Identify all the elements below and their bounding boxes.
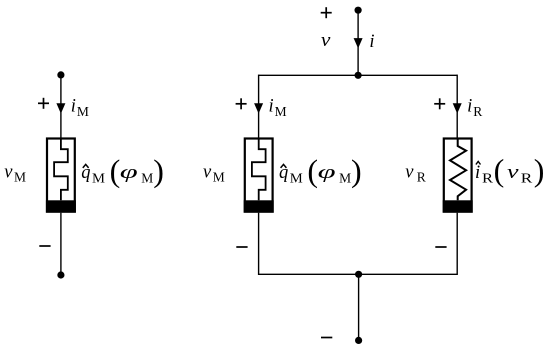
svg-text:R: R [521,171,533,186]
node: top terminal dot [355,7,362,14]
current arrow i_M (left circuit) [56,103,65,113]
polarity label + (memristor branch) [236,98,247,109]
label i_R (resistor branch) [467,97,482,120]
svg-text:φ: φ [318,163,336,183]
polarity label + (top port) [321,7,332,18]
wire: left circuit top lead [60,75,62,138]
svg-text:): ) [351,153,362,189]
polarity label - (bottom port) [321,337,332,339]
svg-text:): ) [153,153,164,189]
wire: bottom rail [259,273,458,275]
svg-text:): ) [534,152,545,188]
current arrow i_R (resistor branch) [453,103,462,113]
resistor zigzag (right) [450,139,466,201]
svg-text:M: M [77,104,89,119]
svg-text:M: M [213,170,225,185]
memristor polarity bar (middle) [244,200,274,212]
svg-text:q: q [279,163,288,183]
svg-text:M: M [275,104,287,119]
svg-text:i: i [475,163,480,183]
label v_M (left) [4,163,26,185]
svg-text:v: v [507,163,520,183]
svg-text:M: M [141,171,153,186]
node: bottom junction dot [355,271,362,278]
resistor box (right) [444,139,472,212]
svg-text:i: i [269,97,274,117]
label v_R (right) [405,163,426,185]
polarity label - (left circuit bottom) [39,245,50,247]
svg-text:M: M [339,171,351,186]
label v_M (middle) [203,163,225,185]
current arrow i (top feed) [354,38,363,48]
value label q_M(phi_M) (middle) [279,153,362,189]
svg-text:R: R [482,171,493,186]
current arrow i_M (memristor branch) [254,103,263,113]
svg-text:i: i [71,97,76,117]
svg-text:v: v [405,163,414,183]
svg-text:i: i [369,32,374,52]
wire: left circuit bottom lead [60,213,62,275]
svg-text:M: M [14,170,26,185]
svg-text:i: i [467,97,472,117]
wire: top feed [357,10,359,75]
svg-text:(: ( [307,153,318,189]
wire: resistor branch top lead [456,75,458,138]
value label q_M(phi_M) (left) [81,153,164,189]
svg-text:v: v [321,31,331,51]
polarity label - (resistor branch bottom) [435,246,446,248]
memristor square-wave (left) [54,139,68,201]
svg-text:φ: φ [120,163,138,183]
polarity label + (left circuit top) [38,98,49,109]
memristor polarity bar (left) [46,200,76,212]
wire: top rail [259,74,458,76]
svg-text:R: R [417,170,426,185]
memristor box (left) [47,139,75,212]
node: bottom terminal dot [355,337,362,344]
memristor box (middle) [245,139,273,212]
svg-text:R: R [473,104,482,119]
wire: memristor branch top lead [258,75,260,138]
svg-text:(: ( [110,153,121,189]
label i_M (memristor branch) [269,97,287,120]
svg-text:q: q [81,163,90,183]
wire: bottom feed [358,274,360,340]
value label i_R(v_R) (right) [475,152,544,188]
wire: resistor branch bottom lead [456,213,458,275]
svg-text:M: M [290,171,303,186]
node: top junction dot [355,72,362,79]
polarity label - (memristor branch bottom) [236,246,247,248]
memristor square-wave (middle) [252,139,266,201]
label i_M (left circuit) [71,97,89,120]
resistor polarity bar (right) [443,200,473,212]
wire: memristor branch bottom lead [258,213,260,275]
svg-text:v: v [203,163,212,183]
svg-text:(: ( [494,152,505,188]
node: bottom terminal dot (left circuit) [57,271,64,278]
polarity label + (resistor branch) [434,98,445,109]
node: top terminal dot (left circuit) [57,71,64,78]
svg-text:M: M [92,171,105,186]
svg-text:v: v [4,163,13,183]
